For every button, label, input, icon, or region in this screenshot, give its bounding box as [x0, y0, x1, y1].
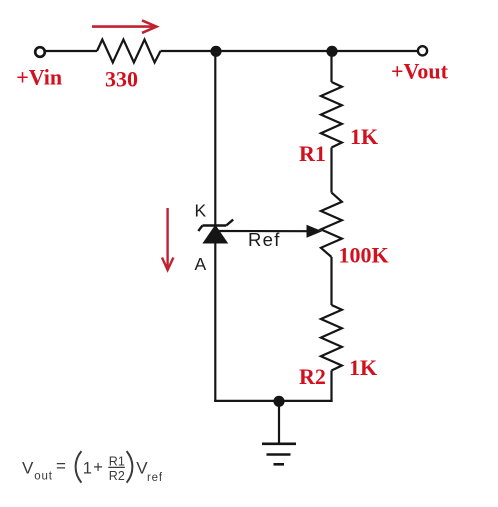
svg-text:R1: R1 [109, 455, 125, 469]
resistor R1 [321, 82, 342, 148]
node junction bottom [273, 396, 284, 407]
node junction top-left [210, 46, 221, 57]
TL431 U1 shunt regulator: cathode bar [198, 220, 233, 231]
svg-text:1: 1 [83, 459, 92, 477]
svg-text:A: A [195, 254, 207, 274]
svg-text:R2: R2 [109, 469, 125, 483]
svg-text:+: + [93, 458, 103, 476]
svg-text:R2: R2 [299, 364, 326, 389]
svg-text:+Vout: +Vout [391, 59, 449, 84]
wire left branch K side [214, 51, 216, 227]
svg-text:100K: 100K [339, 243, 389, 268]
svg-text:+Vin: +Vin [16, 65, 62, 90]
wiper arrowhead into potentiometer [307, 225, 323, 238]
wire right branch bottom [330, 371, 332, 403]
resistor R2 [321, 305, 342, 371]
formula Vout = (1 + R1/R2) Vref [22, 451, 163, 484]
svg-text:V: V [22, 458, 34, 477]
wire potentiometer to R2 [330, 257, 332, 305]
svg-text:1K: 1K [349, 355, 377, 380]
wire R1 to potentiometer [330, 148, 332, 193]
node junction top-right [326, 46, 337, 57]
svg-text:K: K [195, 201, 207, 221]
current arrow over resistor 330 [92, 20, 157, 33]
svg-text:R1: R1 [299, 141, 326, 166]
TL431 U1 anode triangle [204, 226, 227, 243]
resistor 330 [97, 40, 161, 63]
current arrow down (left of TL431) [162, 208, 173, 270]
wire bottom rail [214, 400, 332, 402]
svg-text:1K: 1K [350, 124, 378, 149]
terminal +Vout [418, 46, 427, 55]
svg-text:330: 330 [105, 67, 138, 92]
svg-text:Ref: Ref [248, 229, 281, 250]
ground [262, 444, 296, 465]
wire Ref line from TL431 to potentiometer wiper [217, 230, 308, 232]
wire left branch A side down to bottom rail [214, 242, 216, 402]
svg-text:=: = [56, 457, 66, 476]
ground stem [278, 401, 280, 443]
potentiometer 100K [321, 193, 342, 257]
wire top rail right of resistor to +Vout terminal [161, 50, 419, 52]
wire top rail left [44, 50, 97, 52]
wire right branch: top to R1 [330, 51, 332, 82]
svg-text:ref: ref [147, 472, 163, 484]
svg-text:out: out [34, 471, 52, 483]
terminal +Vin [35, 47, 45, 57]
